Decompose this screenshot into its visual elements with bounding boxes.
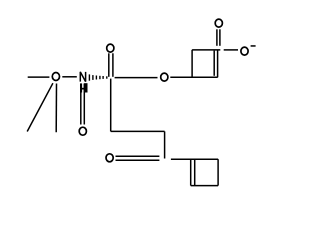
minus charge on O6 bbox=[251, 45, 256, 47]
atom O4 ester oxygen bbox=[161, 73, 168, 81]
atom N bbox=[80, 72, 85, 82]
chain bond horizontal bbox=[111, 130, 165, 132]
ring2 bottom edge bbox=[191, 185, 218, 187]
atom O5 carboxylate carbonyl oxygen bbox=[215, 19, 222, 27]
ring1 left edge bbox=[191, 50, 193, 78]
ring2 right edge bbox=[217, 159, 219, 185]
bond C8-ring2 and ring2 top edge bbox=[171, 158, 218, 160]
ring1 top edge bbox=[192, 49, 220, 51]
chain bond C2 down bbox=[110, 79, 112, 132]
double bond N=O2 bbox=[81, 84, 85, 125]
ring2 inner double bond line bbox=[194, 160, 196, 186]
double bond C2=O3 bbox=[109, 53, 113, 77]
atom O1 methoxy oxygen bbox=[52, 73, 59, 81]
bond O1-N bbox=[62, 76, 77, 78]
atom H on N bbox=[80, 83, 88, 92]
bond O1 vertical methyl bbox=[55, 84, 57, 133]
bond C2-O4 bbox=[115, 77, 158, 79]
atom O2 N-oxide oxygen bbox=[79, 127, 86, 135]
atom O3 carbonyl oxygen bbox=[107, 44, 114, 52]
bond O4-ring1 and ring1 bottom edge bbox=[170, 76, 217, 78]
bond ring1-O6 bbox=[224, 49, 238, 51]
atom O7 ketone oxygen bbox=[106, 154, 113, 162]
ring2 left edge bbox=[190, 159, 192, 185]
ring1 inner double bond line bbox=[213, 51, 215, 76]
ring1 right edge bbox=[217, 50, 219, 77]
double bond C(ring1)=O5 bbox=[217, 29, 220, 46]
double bond C8=O7 bbox=[116, 156, 160, 160]
bond methyl-O1 bbox=[28, 76, 50, 78]
chain bond down to C8 bbox=[164, 131, 166, 158]
bond O1 diagonal methyl bbox=[27, 83, 53, 131]
atom O6 carboxylate anion oxygen bbox=[241, 47, 248, 55]
hashed wedge bond N-C2 bbox=[89, 74, 106, 80]
